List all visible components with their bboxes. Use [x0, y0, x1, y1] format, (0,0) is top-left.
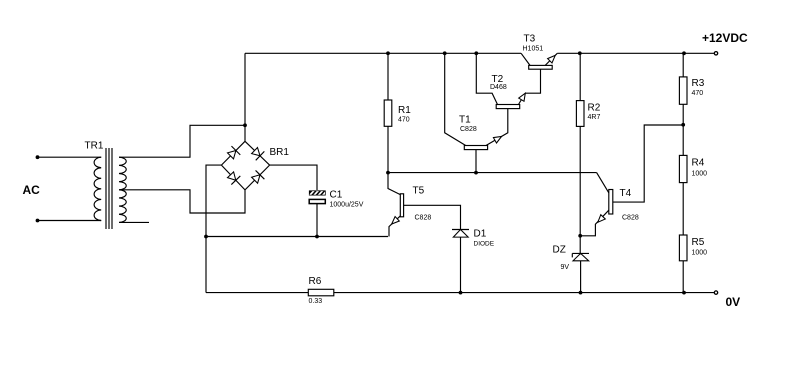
node C1 negative [315, 235, 319, 239]
label D1 value DIODE [474, 241, 495, 248]
svg-text:1000u/25V: 1000u/25V [330, 201, 364, 208]
node T1 base junction [474, 171, 478, 175]
wire base bus [388, 172, 597, 174]
wire AC top terminal to TR1 primary [38, 156, 102, 158]
svg-text:DZ: DZ [553, 245, 566, 256]
wire secondary top to bridge-top node [119, 125, 245, 157]
svg-text:R4: R4 [692, 158, 705, 169]
node T4 emitter / R2 / DZ junction [578, 234, 582, 238]
svg-text:R5: R5 [692, 237, 705, 248]
wire bridge top riser to top rail [244, 53, 246, 141]
svg-text:0.33: 0.33 [309, 298, 323, 305]
bridge rectifier BR1 [221, 141, 269, 190]
terminal +12VDC [714, 52, 717, 55]
label +12VDC [702, 31, 748, 45]
transistor T2 [476, 53, 525, 108]
label R2 value 4R7 [588, 114, 601, 121]
wire top rail left segment [245, 52, 521, 54]
svg-text:C828: C828 [460, 126, 477, 133]
label R2 [588, 103, 601, 114]
svg-text:C1: C1 [330, 189, 343, 200]
svg-text:470: 470 [692, 90, 704, 97]
label TR1 [85, 141, 104, 152]
transformer TR1 core [106, 148, 112, 229]
label T4 [620, 188, 632, 199]
wire secondary tap to bridge bottom [119, 190, 245, 213]
node R1 top [386, 51, 390, 55]
svg-text:DIODE: DIODE [474, 241, 495, 248]
svg-text:+12VDC: +12VDC [702, 31, 748, 45]
label R3 [692, 78, 705, 89]
resistor R5 [679, 235, 687, 293]
svg-text:D1: D1 [474, 229, 487, 240]
label C1 value 1000u/25V [330, 201, 364, 208]
resistor R2 [576, 53, 584, 236]
label T1 [459, 114, 471, 125]
svg-text:H1051: H1051 [523, 46, 544, 53]
label R6 value 0.33 [309, 298, 323, 305]
wire negative bus [206, 236, 388, 238]
transformer TR1 primary winding [94, 157, 101, 220]
wire bottom rail left of R6 [206, 292, 308, 294]
label R5 [692, 237, 705, 248]
svg-text:9V: 9V [561, 264, 570, 271]
label T3 value H1051 [523, 46, 544, 53]
label C1 [330, 189, 343, 200]
zener diode DZ [572, 236, 589, 293]
label T1 value C828 [460, 126, 477, 133]
label T5 [413, 185, 425, 196]
label 0V [726, 295, 741, 309]
node R1 bottom / T5 collector [386, 171, 390, 175]
wire bridge left corner to bottom rail [206, 165, 221, 293]
transformer TR1 secondary winding [119, 157, 126, 222]
svg-text:T5: T5 [413, 185, 425, 196]
svg-text:D468: D468 [490, 84, 507, 91]
node R3 top [682, 51, 686, 55]
label T4 value C828 [622, 215, 639, 222]
label T2 [492, 74, 504, 85]
wire bridge right corner to C1 [270, 165, 317, 190]
svg-text:AC: AC [23, 183, 41, 197]
label T2 value D468 [490, 84, 507, 91]
label R1 [398, 105, 411, 116]
resistor R1 [384, 53, 392, 172]
label T3 [524, 34, 536, 45]
label R5 value 1000 [692, 250, 708, 257]
node R2 top [578, 51, 582, 55]
node R5 bottom [682, 291, 686, 295]
label R6 [309, 276, 322, 287]
terminal AC top [36, 155, 40, 159]
svg-text:1000: 1000 [692, 250, 708, 257]
svg-text:1000: 1000 [692, 171, 708, 178]
label DZ [553, 245, 566, 256]
node bridge-top / secondary-top junction [243, 123, 247, 127]
label BR1 [270, 147, 290, 158]
svg-text:4R7: 4R7 [588, 114, 601, 121]
node T2 collector rail junction [474, 51, 478, 55]
label T5 value C828 [415, 215, 432, 222]
svg-text:R2: R2 [588, 103, 601, 114]
label D1 [474, 229, 487, 240]
svg-text:T3: T3 [524, 34, 536, 45]
wire secondary bottom stub [119, 221, 149, 223]
label R1 value 470 [398, 117, 410, 124]
svg-text:R1: R1 [398, 105, 411, 116]
svg-text:T1: T1 [459, 114, 471, 125]
terminal AC bottom [36, 219, 40, 223]
node T1 collector rail junction [443, 51, 447, 55]
svg-text:R6: R6 [309, 276, 322, 287]
svg-text:C828: C828 [415, 215, 432, 222]
node R3/R4 divider junction [681, 123, 685, 127]
svg-text:R3: R3 [692, 78, 705, 89]
resistor R3 [679, 53, 687, 125]
svg-text:0V: 0V [726, 295, 741, 309]
transistor T5 [388, 173, 404, 237]
node D1 bottom [459, 291, 463, 295]
node DZ bottom [579, 291, 583, 295]
diode D1 [452, 230, 469, 293]
label R4 [692, 158, 705, 169]
resistor R4 [679, 125, 687, 235]
capacitor C1 positive plate [309, 189, 329, 196]
svg-text:TR1: TR1 [85, 141, 104, 152]
transistor T4 [580, 125, 683, 236]
capacitor C1 negative plate [309, 199, 325, 203]
label DZ value 9V [561, 264, 570, 271]
transistor T3 [521, 53, 557, 93]
wire AC bottom terminal to TR1 primary [38, 220, 102, 222]
resistor R6 [308, 289, 334, 296]
terminal 0V [714, 291, 717, 294]
label AC input [23, 183, 41, 197]
svg-text:470: 470 [398, 117, 410, 124]
label R4 value 1000 [692, 171, 708, 178]
svg-text:C828: C828 [622, 215, 639, 222]
node negative bus junction [204, 235, 208, 239]
wire bottom rail right of R6 [334, 292, 715, 294]
svg-text:T4: T4 [620, 188, 632, 199]
wire top rail right segment (+12V) [557, 52, 714, 54]
svg-text:BR1: BR1 [270, 147, 290, 158]
label R3 value 470 [692, 90, 704, 97]
wire C1 to negative bus [316, 204, 318, 237]
wire T5 base to D1 [404, 205, 461, 229]
transistor T1 [445, 53, 508, 172]
